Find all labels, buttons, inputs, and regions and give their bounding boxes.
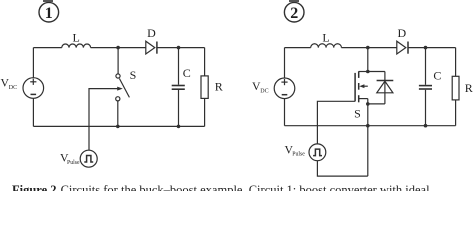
capacitor C (circuit 2)	[419, 86, 432, 89]
pulse source V_Pulse (circuit 2)	[309, 144, 326, 161]
svg-text:C: C	[433, 68, 441, 82]
bottom rail (circuit 1)	[33, 125, 204, 127]
node mosfet-drain-top	[366, 46, 370, 50]
node source-bottom (circuit 2)	[366, 124, 370, 128]
resistor R (circuit 2)	[452, 76, 459, 100]
circled marker 2	[284, 0, 304, 22]
node cap-bottom	[177, 125, 181, 129]
svg-text:1: 1	[45, 5, 53, 22]
wire node C to top-right corner	[179, 47, 205, 49]
resistor R (circuit 1)	[201, 76, 208, 99]
mosfet Q1	[355, 71, 368, 102]
gate return wire V_Pulse to source	[317, 161, 367, 176]
wire top-right corner to resistor (circuit 1)	[204, 48, 206, 76]
wire node to top-right corner (circuit 2)	[426, 47, 456, 49]
svg-text:Figure 2Circuits for the buck–: Figure 2Circuits for the buck–boost exam…	[12, 183, 430, 191]
svg-text:DC: DC	[9, 85, 17, 91]
svg-text:Pulse: Pulse	[67, 160, 80, 166]
capacitor C (circuit 1)	[172, 86, 185, 90]
label V_Pulse (circuit 1)	[60, 151, 80, 166]
inductor L (circuit 2)	[311, 44, 342, 48]
svg-text:2: 2	[290, 5, 298, 22]
svg-text:D: D	[147, 26, 156, 40]
node source-bodydiode	[366, 102, 370, 106]
svg-text:S: S	[130, 68, 137, 82]
wire source to bottom rail (circuit 1)	[32, 98, 34, 126]
wire top node to mosfet drain	[367, 48, 369, 72]
svg-text:DC: DC	[260, 89, 268, 95]
wire node to capacitor (circuit 2)	[425, 48, 427, 85]
wire resistor to bottom rail (circuit 2)	[455, 100, 457, 126]
svg-text:R: R	[215, 80, 223, 94]
wire node to capacitor (circuit 1)	[178, 48, 180, 85]
label V_Pulse (circuit 2)	[285, 142, 306, 157]
source V_DC (circuit 1)	[23, 78, 44, 99]
wire source to bottom rail (circuit 2)	[284, 99, 286, 126]
svg-text:C: C	[183, 66, 191, 80]
source V_DC (circuit 2)	[274, 78, 295, 99]
wire diode to node C	[157, 47, 179, 49]
diode D (circuit 2)	[397, 41, 408, 54]
node drain-bodydiode	[366, 70, 370, 74]
svg-text:D: D	[397, 26, 406, 40]
svg-text:Pulse: Pulse	[292, 152, 305, 158]
wire inductor to diode	[91, 47, 146, 49]
switch S	[116, 74, 130, 101]
label V_DC (circuit 1)	[1, 76, 18, 91]
label V_DC (circuit 2)	[252, 79, 269, 94]
wire top-left to inductor (circuit 1)	[33, 47, 61, 49]
inductor L	[62, 44, 91, 48]
wire capacitor to bottom rail (circuit 1)	[178, 90, 180, 126]
node diode-cap	[177, 46, 181, 50]
wire resistor to bottom rail (circuit 1)	[204, 98, 206, 126]
bottom rail (circuit 2)	[285, 125, 456, 127]
svg-text:S: S	[354, 107, 361, 121]
control wire with arrow from V_Pulse to switch	[89, 87, 123, 151]
node switch-top	[116, 46, 120, 50]
wire left rail down to source (circuit 1)	[32, 48, 34, 78]
svg-text:L: L	[322, 30, 329, 44]
wire top-left to inductor (circuit 2)	[285, 47, 311, 49]
wire top node to switch	[117, 48, 119, 74]
wire left rail down to source (circuit 2)	[284, 48, 286, 78]
circled marker 1	[39, 0, 59, 22]
diode D	[146, 41, 157, 54]
node switch-bottom	[116, 125, 120, 129]
wire inductor to diode (circuit 2)	[341, 47, 396, 49]
gate wire from V_Pulse to mosfet gate	[317, 101, 355, 144]
pulse source V_Pulse (circuit 1)	[80, 150, 97, 167]
svg-text:R: R	[465, 81, 473, 95]
wire switch to bottom rail	[117, 101, 119, 127]
wire top-right corner to resistor (circuit 2)	[455, 48, 457, 77]
wire mosfet source down	[367, 99, 369, 177]
node diode-cap (circuit 2)	[424, 46, 428, 50]
body diode of Q1	[368, 72, 394, 104]
node cap-bottom (circuit 2)	[424, 124, 428, 128]
svg-text:L: L	[73, 30, 80, 44]
wire diode to node (circuit 2)	[408, 47, 426, 49]
wire capacitor to bottom rail (circuit 2)	[425, 90, 427, 126]
